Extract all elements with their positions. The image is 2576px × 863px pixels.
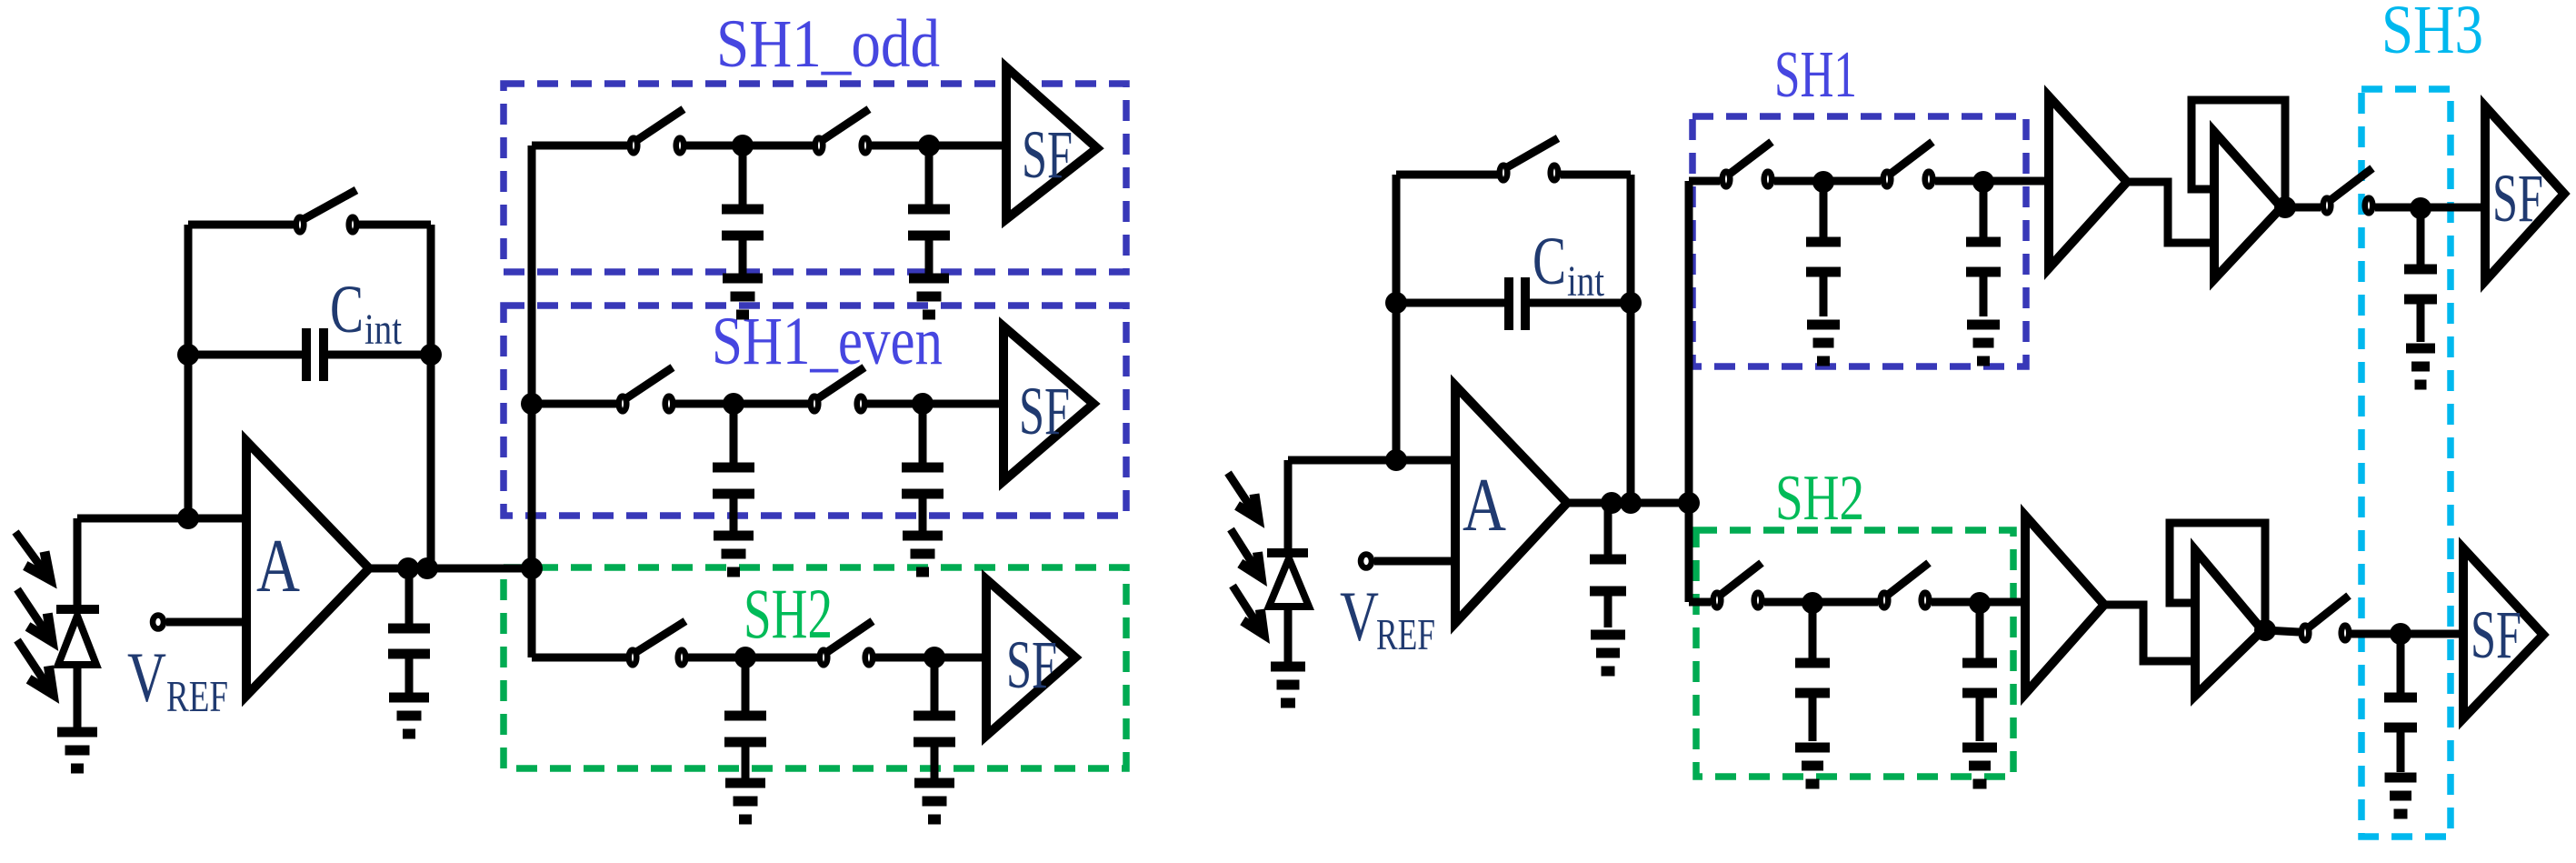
label A (left) bbox=[256, 524, 300, 608]
svg-text:REF: REF bbox=[166, 671, 228, 721]
svg-text:SH1: SH1 bbox=[1774, 37, 1857, 111]
svg-text:A: A bbox=[256, 524, 300, 608]
switch S13 (SH2 right second) bbox=[1881, 563, 1930, 607]
svg-text:V: V bbox=[127, 637, 166, 717]
switch S10 (SH1 right second) bbox=[1883, 142, 1933, 186]
wire SH1_even cap1 stub bbox=[730, 404, 738, 464]
SH3 dashed box bbox=[2361, 89, 2451, 837]
wire feedback right vertical bbox=[427, 225, 435, 568]
svg-text:SH2: SH2 bbox=[1775, 463, 1864, 534]
ground (C1) bbox=[389, 697, 429, 734]
SH2 dashed box (right) bbox=[1696, 530, 2013, 777]
switch S6 (SH2 first) bbox=[629, 621, 686, 665]
label Vref (right) bbox=[1340, 577, 1435, 659]
ground (C2) bbox=[723, 278, 763, 315]
svg-text:SF: SF bbox=[2471, 597, 2521, 673]
light arrow 2 (right) bbox=[1231, 529, 1261, 577]
SF buffer U7 (top chain) bbox=[2485, 106, 2564, 281]
wire U6 out to switch bbox=[2285, 204, 2321, 212]
SH1_even dashed box bbox=[504, 306, 1126, 516]
ground (C4) bbox=[714, 536, 754, 572]
wire photodiode anode up bbox=[74, 518, 82, 606]
wire feedback right vertical (right) bbox=[1627, 175, 1635, 503]
wire SH3 bottom cap stub bbox=[2397, 634, 2405, 694]
wire below C12 bbox=[1809, 697, 1817, 741]
wire SH1r seg3 bbox=[1935, 177, 2049, 186]
wire below C2 bbox=[739, 239, 747, 274]
capacitor C9 (SH1 right) bbox=[1806, 242, 1841, 272]
capacitor C6 (SH2) bbox=[724, 716, 766, 742]
ground (C8) bbox=[1591, 635, 1625, 671]
node SH1_even cap1 bbox=[723, 393, 744, 415]
ground (C14) bbox=[2385, 778, 2417, 814]
wire Cint right bbox=[328, 351, 431, 359]
capacitor C2 (SH1_odd) bbox=[722, 209, 764, 236]
SH1_odd dashed box bbox=[504, 84, 1126, 272]
ground (C13) bbox=[1962, 748, 1997, 784]
wire SH2 seg1 bbox=[532, 654, 627, 662]
op-amp A (right) bbox=[1455, 386, 1567, 623]
wire SH1_even seg2 bbox=[675, 400, 809, 408]
capacitor C13 (SH2 right) bbox=[1962, 663, 1997, 693]
wire Cint right (right) bbox=[1530, 299, 1631, 307]
wire SH1r seg1 bbox=[1689, 177, 1720, 186]
label SF (bottom chain) bbox=[2471, 597, 2521, 673]
ground (C3) bbox=[909, 278, 949, 315]
node output d bbox=[1620, 492, 1642, 514]
wire feedback top left (right) bbox=[1396, 171, 1498, 179]
label Vref (left) bbox=[127, 637, 228, 721]
wire SH2 seg3 bbox=[875, 654, 986, 662]
svg-text:SF: SF bbox=[1006, 627, 1057, 703]
capacitor C5 (SH1_even) bbox=[902, 467, 944, 494]
wire to SF (bottom chain) bbox=[2351, 630, 2463, 638]
wire SH2r seg1 bbox=[1689, 598, 1711, 607]
buffer U9 with feedback (bottom chain) bbox=[2195, 550, 2262, 696]
node SH2 cap1 bbox=[734, 647, 756, 668]
wire U9 out to switch bbox=[2265, 630, 2299, 632]
switch S9 (SH1 right first) bbox=[1722, 142, 1772, 186]
node Cint left bbox=[177, 344, 199, 366]
ground (C11) bbox=[2406, 348, 2435, 385]
buffer U6 with feedback (top chain) bbox=[2214, 132, 2281, 279]
svg-text:SF: SF bbox=[2492, 161, 2543, 236]
label SF (SH1_even) bbox=[1019, 374, 1070, 449]
SF buffer U2 (SH1_odd) bbox=[1006, 67, 1097, 219]
capacitor C7 (SH2) bbox=[914, 716, 955, 742]
wire SH1r cap1 stub bbox=[1820, 182, 1828, 238]
wire below C8 bbox=[1604, 595, 1612, 627]
wire SH1r seg2 bbox=[1774, 177, 1881, 186]
wire feedback left vertical bbox=[185, 225, 193, 518]
capacitor C12 (SH2 right) bbox=[1795, 663, 1830, 693]
label SF (top chain) bbox=[2492, 161, 2543, 236]
node SH1_odd cap2 bbox=[918, 135, 940, 156]
svg-text:SH3: SH3 bbox=[2381, 0, 2483, 68]
capacitor Cint (right) bbox=[1509, 277, 1525, 330]
wire SH2 cap1 stub bbox=[742, 657, 750, 712]
svg-text:REF: REF bbox=[1376, 609, 1435, 659]
wire to SF (top chain) bbox=[2375, 204, 2485, 212]
wire inverting input row bbox=[77, 515, 246, 523]
capacitor C10 (SH1 right) bbox=[1966, 242, 2001, 272]
wire feedback top right (right) bbox=[1561, 171, 1631, 179]
capacitor C14 (SH3 bottom) bbox=[2384, 697, 2417, 728]
wire SH3 top cap stub bbox=[2417, 208, 2425, 266]
ground (C5) bbox=[903, 536, 943, 572]
photodiode D1 bbox=[56, 609, 99, 728]
switch S11 (top chain) bbox=[2323, 168, 2373, 213]
switch S2 (SH1_odd first) bbox=[630, 109, 684, 153]
svg-text:C: C bbox=[330, 272, 364, 347]
node SH3 top cap bbox=[2410, 197, 2431, 219]
label SF (SH2) bbox=[1006, 627, 1057, 703]
wire feedback top left bbox=[188, 221, 295, 229]
svg-text:SH2: SH2 bbox=[744, 574, 833, 653]
wire below C11 bbox=[2417, 303, 2425, 342]
wire feedback loop U6 bbox=[2192, 100, 2285, 207]
svg-text:A: A bbox=[1463, 463, 1506, 547]
node SH2 cap2 bbox=[924, 647, 945, 668]
switch S14 (bottom chain) bbox=[2301, 596, 2350, 640]
switch S7 (SH2 second) bbox=[820, 621, 874, 665]
ground (C7) bbox=[914, 783, 954, 819]
svg-text:C: C bbox=[1533, 224, 1566, 299]
node Cint right bbox=[420, 344, 442, 366]
label Cint (right) bbox=[1533, 224, 1605, 306]
wire below C7 bbox=[931, 746, 939, 778]
wire SH1_even seg3 bbox=[867, 400, 1003, 408]
label SF (SH1_odd) bbox=[1022, 117, 1073, 193]
wire feedback loop U9 bbox=[2170, 523, 2265, 630]
wire SH2r seg2 bbox=[1764, 598, 1878, 607]
wire below C10 bbox=[1980, 276, 1988, 316]
wire SH2r seg3 bbox=[1932, 598, 2025, 607]
wire bus right vertical bbox=[1685, 181, 1693, 602]
wire below C6 bbox=[742, 746, 750, 778]
SF buffer U10 (bottom chain) bbox=[2463, 548, 2543, 718]
label SH1_odd bbox=[716, 6, 940, 82]
wire Vref (right) bbox=[1374, 557, 1455, 566]
ground (C12) bbox=[1795, 748, 1830, 784]
photodiode D2 bbox=[1267, 553, 1309, 663]
node SH1_even cap2 bbox=[912, 393, 934, 415]
svg-text:int: int bbox=[364, 306, 403, 354]
light arrow 1 (left) bbox=[15, 532, 50, 579]
node U9 output bbox=[2254, 619, 2276, 641]
switch S1 reset (left) bbox=[296, 190, 357, 232]
node Cint right (right) bbox=[1620, 292, 1642, 314]
wire below C14 bbox=[2397, 731, 2405, 772]
wire SH2r cap1 stub bbox=[1809, 603, 1817, 659]
wire SH2r cap2 stub bbox=[1976, 603, 1984, 659]
ground (photodiode left) bbox=[57, 732, 97, 768]
node output b bbox=[416, 557, 438, 579]
wire output cap stub (right) bbox=[1604, 503, 1612, 556]
svg-text:V: V bbox=[1340, 577, 1379, 656]
wire below C13 bbox=[1976, 697, 1984, 741]
wire feedback top right bbox=[359, 221, 431, 229]
capacitor C8 (output hold, right) bbox=[1590, 559, 1626, 591]
label SH2 (right) bbox=[1775, 463, 1864, 534]
SF buffer U3 (SH1_even) bbox=[1003, 326, 1093, 481]
capacitor C1 (output hold, left) bbox=[388, 628, 430, 654]
capacitor Cint (left) bbox=[306, 328, 324, 381]
svg-text:SF: SF bbox=[1019, 374, 1070, 449]
wire SH1_odd cap2 stub bbox=[925, 146, 934, 206]
wire SH1_odd seg2 bbox=[686, 142, 814, 150]
wire SH1_even seg1 bbox=[532, 400, 617, 408]
wire SH1_odd seg1 bbox=[532, 142, 628, 150]
wire feedback left vertical (right) bbox=[1393, 175, 1401, 460]
terminal Vref (left) bbox=[153, 616, 164, 629]
wire SH1_odd seg3 bbox=[872, 142, 1006, 150]
node U6 output bbox=[2274, 196, 2296, 218]
node SH1r cap2 bbox=[1972, 171, 1994, 193]
switch S5 (SH1_even second) bbox=[811, 367, 865, 411]
wire SH1r cap2 stub bbox=[1980, 182, 1988, 238]
wire below C9 bbox=[1820, 276, 1828, 316]
svg-text:SF: SF bbox=[1022, 117, 1073, 193]
node bus right bbox=[1678, 492, 1700, 514]
op-amp A (left) bbox=[246, 441, 369, 696]
node output c bbox=[1601, 492, 1622, 514]
ground (C6) bbox=[725, 783, 765, 819]
switch S4 (SH1_even first) bbox=[619, 367, 674, 411]
light arrow 3 (right) bbox=[1233, 586, 1263, 634]
ground (photodiode right) bbox=[1271, 667, 1305, 703]
wire output cap stub bbox=[405, 568, 414, 625]
svg-text:int: int bbox=[1567, 257, 1605, 306]
buffer U8 (bottom chain) bbox=[2025, 516, 2104, 694]
node SH2r cap2 bbox=[1969, 592, 1991, 614]
wire below C3 bbox=[925, 239, 934, 274]
label SH3 bbox=[2381, 0, 2483, 68]
capacitor C3 (SH1_odd) bbox=[908, 209, 950, 236]
wire inverting input row (right) bbox=[1288, 457, 1455, 465]
capacitor C4 (SH1_even) bbox=[713, 467, 754, 494]
wire jog top chain bbox=[2127, 182, 2214, 243]
wire jog bottom chain bbox=[2104, 605, 2195, 661]
switch S12 (SH2 right first) bbox=[1713, 563, 1762, 607]
node SH1r cap1 bbox=[1812, 171, 1834, 193]
ground (C9) bbox=[1807, 325, 1840, 361]
buffer U5 (top chain) bbox=[2049, 96, 2127, 268]
switch S8 reset (right) bbox=[1500, 138, 1559, 180]
wire photodiode 2 anode up bbox=[1284, 460, 1293, 549]
SH2 dashed box (left circuit) bbox=[504, 567, 1126, 768]
svg-text:SH1_odd: SH1_odd bbox=[716, 6, 940, 82]
wire below C4 bbox=[730, 497, 738, 531]
node inverting input bbox=[177, 507, 199, 529]
wire below C5 bbox=[919, 497, 927, 531]
wire op-amp output row (right) bbox=[1567, 499, 1689, 507]
label Cint (left) bbox=[330, 272, 403, 354]
SH1 dashed box (right) bbox=[1692, 116, 2026, 366]
wire SH2 cap2 stub bbox=[931, 657, 939, 712]
node inverting input (right) bbox=[1385, 449, 1407, 471]
switch S3 (SH1_odd second) bbox=[815, 109, 870, 153]
ground (C10) bbox=[1967, 325, 2000, 361]
wire Cint left (right) bbox=[1396, 299, 1504, 307]
wire SH2 seg2 bbox=[688, 654, 818, 662]
wire Vref (left) bbox=[166, 618, 246, 627]
label SH1_even bbox=[712, 304, 943, 379]
wire SH1_even cap2 stub bbox=[919, 404, 927, 464]
wire branch bus vertical bbox=[528, 146, 536, 657]
wire op-amp output row bbox=[369, 565, 532, 573]
node SH3 bottom cap bbox=[2390, 623, 2411, 645]
wire below C1 bbox=[405, 657, 414, 694]
node bus even bbox=[521, 393, 543, 415]
terminal Vref (right) bbox=[1361, 555, 1372, 568]
light arrow 1 (right) bbox=[1228, 473, 1258, 518]
node SH2r cap1 bbox=[1802, 592, 1823, 614]
node Cint left (right) bbox=[1385, 292, 1407, 314]
label SH1 (right) bbox=[1774, 37, 1857, 111]
label SH2 (left) bbox=[744, 574, 833, 653]
light arrow 2 (left) bbox=[17, 589, 52, 641]
node output a bbox=[397, 557, 419, 579]
label A (right) bbox=[1463, 463, 1506, 547]
capacitor C11 (SH3 top) bbox=[2404, 269, 2437, 299]
light arrow 3 (left) bbox=[17, 640, 53, 694]
node branch bus bbox=[521, 557, 543, 579]
SF buffer U4 (SH2) bbox=[986, 579, 1075, 736]
wire Cint left bbox=[188, 351, 302, 359]
wire SH1_odd cap1 stub bbox=[739, 146, 747, 206]
node SH1_odd cap1 bbox=[732, 135, 754, 156]
